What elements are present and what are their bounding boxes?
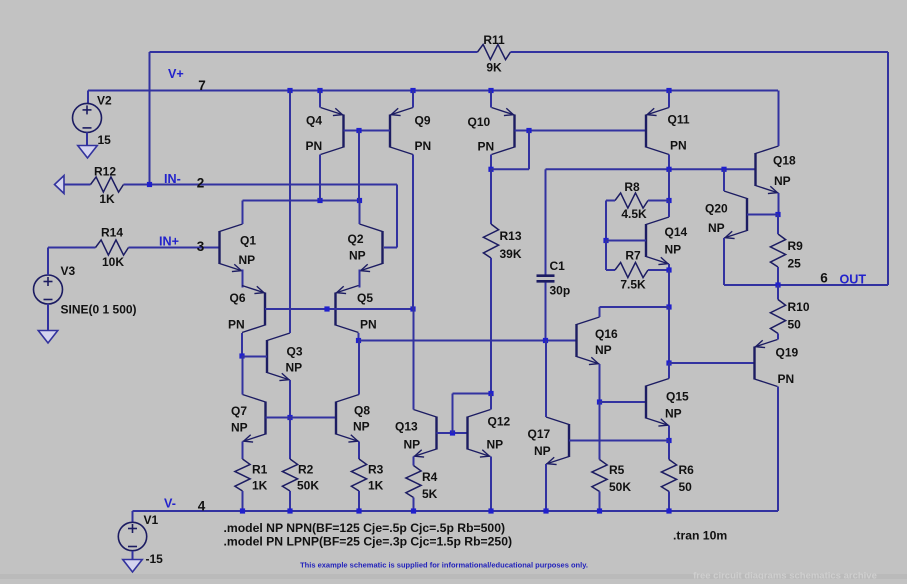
label V2: [97, 94, 112, 108]
net OUT line: [778, 284, 888, 286]
junction Q20 collector tap: [721, 167, 726, 172]
ground below V2: [78, 146, 98, 159]
wire Q10/Q11 base rail: [515, 130, 647, 132]
wire Q6 collector down: [241, 333, 243, 356]
voltage source V3: [34, 275, 63, 304]
label Q17: [528, 427, 551, 441]
wire Q19 collector to V-: [777, 387, 779, 512]
wire Q4 collector down: [319, 155, 321, 201]
wire Q7/Q8 base rail: [266, 417, 337, 419]
svg-text:R3: R3: [368, 463, 384, 477]
wire R8 left lead: [606, 201, 615, 241]
label Q10: [468, 115, 491, 129]
svg-text:Q11: Q11: [668, 113, 690, 127]
label Q14: [665, 225, 688, 239]
svg-text:10K: 10K: [102, 255, 124, 269]
wire Q17 collector up: [545, 341, 547, 418]
wire Q7 collector up: [242, 356, 244, 395]
junction V+ Q3: [287, 88, 292, 93]
junction Q4/Q9 base tap: [356, 128, 361, 133]
label node 4: [198, 499, 206, 514]
resistor R13: [483, 224, 498, 258]
junction V- R1: [240, 508, 245, 513]
label R13 39K: [500, 247, 522, 261]
wire Q17 base line: [569, 440, 669, 442]
svg-text:R10: R10: [788, 300, 810, 314]
transistor Q13: [414, 410, 437, 458]
svg-text:R7: R7: [625, 249, 641, 263]
svg-text:NP: NP: [353, 420, 370, 434]
svg-text:Q14: Q14: [665, 225, 688, 239]
label SINE(0 1 500): [61, 303, 137, 317]
junction V- R2: [287, 508, 292, 513]
resistor R8: [615, 193, 648, 208]
resistor R6: [661, 460, 676, 492]
svg-text:Q2: Q2: [348, 232, 364, 246]
wire R11 to OUT corner: [511, 52, 889, 285]
wire base rail down to collector line: [358, 131, 360, 201]
junction Q5 collector node: [356, 338, 361, 343]
label R11: [483, 33, 505, 47]
svg-text:C1: C1: [550, 259, 566, 273]
resistor R10: [770, 300, 785, 334]
label R13: [500, 229, 522, 243]
svg-text:Q10: Q10: [468, 115, 491, 129]
svg-text:R4: R4: [422, 470, 438, 484]
label 30p: [550, 284, 571, 298]
svg-text:NP: NP: [534, 444, 551, 458]
junction R13 / Q12 collector: [488, 391, 493, 396]
junction V- R4: [411, 508, 416, 513]
wire V2 to rail: [87, 91, 89, 104]
transistor Q18: [756, 146, 779, 194]
svg-text:V1: V1: [144, 513, 159, 527]
svg-text:Q9: Q9: [415, 114, 431, 128]
label Q5 PN: [360, 318, 377, 332]
wire V3 to R14: [48, 248, 96, 276]
wire Q4/Q9 base rail: [344, 130, 391, 132]
transistor Q20: [724, 191, 747, 239]
wire feedback from IN- up to R11: [150, 52, 478, 185]
svg-text:NP: NP: [349, 249, 366, 263]
svg-text:R14: R14: [101, 226, 123, 240]
resistor R2: [282, 459, 297, 491]
label Q20: [705, 202, 728, 216]
label IN-: [164, 172, 181, 186]
junction V+ Q4: [317, 88, 322, 93]
label Q8 NP: [353, 420, 370, 434]
label Q19: [776, 346, 799, 360]
wire Q17 emitter to V-: [545, 464, 547, 511]
ground below V3: [38, 331, 58, 344]
label Q5: [357, 291, 373, 305]
wire Q18 collector to V+: [778, 91, 780, 147]
wire R10 to Q19 emitter: [777, 334, 779, 340]
transistor Q9 PNP: [390, 108, 413, 155]
svg-text:V3: V3: [61, 264, 76, 278]
resistor R11: [478, 44, 511, 59]
svg-text:NP: NP: [404, 438, 421, 452]
wire C1 top lead: [545, 169, 547, 275]
transistor Q8: [336, 395, 359, 443]
notice text: [300, 561, 588, 570]
wire Q12 emitter to V-: [490, 457, 492, 512]
junction V+ Q11: [666, 88, 671, 93]
label R6 50: [679, 480, 693, 494]
label -15: [146, 552, 164, 566]
label Q13 NP: [404, 438, 421, 452]
label IN+: [159, 235, 179, 249]
label Q11: [668, 113, 690, 127]
wire Q13/Q12 base link: [437, 432, 468, 434]
label node 6: [820, 271, 828, 286]
transistor Q14: [646, 217, 669, 265]
label Q4: [306, 114, 322, 128]
wire Q1 collector: [243, 201, 360, 225]
ground below V1: [123, 560, 143, 573]
svg-text:4.5K: 4.5K: [621, 207, 647, 221]
svg-text:R6: R6: [679, 463, 695, 477]
label node 3: [197, 239, 205, 254]
junction Q19 base node: [666, 360, 671, 365]
svg-text:NP: NP: [665, 243, 682, 257]
wire Q15 emitter lead: [668, 426, 670, 441]
label Q15: [666, 390, 689, 404]
svg-text:Q6: Q6: [230, 291, 246, 305]
label Q3: [287, 345, 303, 359]
wire Q8 collector up: [358, 341, 360, 395]
wire Q10 base to collector: [491, 131, 529, 170]
label R2: [298, 463, 314, 477]
wire R8 right lead: [648, 200, 669, 202]
transistor Q11 PNP: [646, 108, 669, 155]
label Q15 NP: [665, 407, 682, 421]
junction C1 / Q17 collector: [543, 338, 548, 343]
svg-text:50: 50: [679, 480, 693, 494]
wire Q7 emitter to R1: [242, 442, 244, 460]
svg-text:NP: NP: [665, 407, 682, 421]
svg-text:2: 2: [197, 176, 205, 191]
label Q9 PN: [415, 139, 432, 153]
wire R7 left lead: [606, 241, 615, 271]
wire Q9 emitter: [412, 91, 414, 108]
wire Q19 base line: [669, 362, 754, 364]
wire Q14 base line: [606, 240, 646, 242]
svg-text:50: 50: [788, 318, 802, 332]
wire R13 top: [490, 169, 492, 224]
svg-text:IN+: IN+: [159, 235, 179, 249]
wire Q16 emitter to R5: [599, 402, 601, 460]
resistor R1: [235, 459, 250, 491]
wire Q20 base line: [747, 214, 778, 216]
label Q17 NP: [534, 444, 551, 458]
bottom strip: [0, 574, 907, 579]
wire Q12 collector lead: [490, 394, 492, 410]
wire base up and to R13: [453, 394, 492, 434]
net V+ rail node 7: [88, 90, 778, 92]
capacitor C1: [537, 276, 555, 282]
svg-text:3: 3: [197, 239, 205, 254]
wire Q10 collector down: [490, 155, 492, 170]
wire C1 to Q18 base: [546, 168, 756, 170]
wire R3 to V-: [358, 491, 360, 511]
wire Q3 emitter down: [289, 380, 291, 418]
label Q6 PN: [228, 318, 245, 332]
watermark: [693, 571, 877, 582]
wire Q8 emitter to R3: [358, 442, 360, 460]
svg-text:OUT: OUT: [840, 273, 867, 287]
wire Q5/Q6 base rail: [265, 308, 413, 310]
junction V+ Q9: [410, 88, 415, 93]
transistor Q12: [468, 410, 491, 458]
svg-text:25: 25: [788, 257, 802, 271]
label R10 50: [788, 318, 802, 332]
wire R14 to Q1 base: [129, 247, 220, 249]
wire Q9 collector down: [412, 155, 414, 310]
label 7.5K: [620, 278, 646, 292]
junction V- Q17: [543, 508, 548, 513]
label Q4 PN: [306, 139, 323, 153]
junction OUT: [775, 282, 780, 287]
label R10: [788, 300, 810, 314]
wire Q11 emitter: [668, 91, 670, 108]
junction mirror base / Q9 collector: [410, 306, 415, 311]
label Q19 PN: [778, 372, 795, 386]
svg-text:R12: R12: [94, 165, 116, 179]
label R9 25: [788, 257, 802, 271]
svg-text:.model PN LPNP(BF=25 Cje=.3p C: .model PN LPNP(BF=25 Cje=.3p Cjc=1.5p Rb…: [224, 535, 513, 549]
ground at IN- input: [55, 176, 65, 194]
label node 7: [198, 78, 206, 93]
label Q2: [348, 232, 364, 246]
svg-text:50K: 50K: [609, 480, 631, 494]
label Q14 NP: [665, 243, 682, 257]
svg-text:SINE(0 1 500): SINE(0 1 500): [61, 303, 137, 317]
wire Q15 emitter to R6: [668, 441, 670, 460]
label Q18: [773, 154, 796, 168]
label R3 1K: [368, 479, 384, 493]
svg-text:NP: NP: [774, 174, 791, 188]
svg-text:Q17: Q17: [528, 427, 551, 441]
svg-text:Q16: Q16: [595, 327, 618, 341]
wire R1 to V-: [242, 491, 244, 511]
svg-text:NP: NP: [708, 221, 725, 235]
svg-text:1K: 1K: [99, 192, 115, 206]
svg-text:PN: PN: [415, 139, 432, 153]
svg-text:39K: 39K: [500, 247, 522, 261]
wire Q14 collector lead: [668, 201, 670, 218]
svg-text:1K: 1K: [252, 479, 268, 493]
svg-text:Q8: Q8: [354, 404, 370, 418]
label V1: [144, 513, 159, 527]
label Q3 NP: [286, 361, 303, 375]
svg-text:Q5: Q5: [357, 291, 373, 305]
wire Q20 emitter to OUT: [724, 238, 778, 285]
label Q11 PN: [670, 139, 687, 153]
svg-text:NP: NP: [487, 438, 504, 452]
svg-text:R1: R1: [252, 463, 268, 477]
wire gnd to R12: [64, 184, 91, 186]
label 10K: [102, 255, 124, 269]
wire Q3 collector to V+: [289, 91, 291, 334]
label R1: [252, 463, 268, 477]
svg-text:R13: R13: [500, 229, 522, 243]
label Q13: [395, 420, 418, 434]
svg-text:NP: NP: [595, 343, 612, 357]
label 4.5K: [621, 207, 647, 221]
junction R8/Q14 collector: [666, 198, 671, 203]
label Q18 NP: [774, 174, 791, 188]
wire R12 to Q2 base corner: [124, 185, 398, 248]
wire R5 to V-: [599, 492, 601, 512]
label OUT: [840, 273, 867, 287]
svg-text:NP: NP: [239, 253, 256, 267]
junction V- R3: [356, 508, 361, 513]
resistor R4: [406, 466, 421, 498]
junction V- R6: [666, 508, 671, 513]
resistor R9: [770, 234, 785, 267]
transistor Q5 PNP: [336, 286, 359, 333]
svg-text:30p: 30p: [550, 284, 571, 298]
junction Q16 collector node: [666, 304, 671, 309]
transistor Q4 PNP: [321, 108, 344, 155]
wire V2 to ground: [86, 132, 88, 145]
label V3: [61, 264, 76, 278]
transistor Q19 PNP: [755, 340, 778, 387]
label R5 50K: [609, 480, 631, 494]
wire R13 down to Q12: [490, 258, 492, 394]
wire Q4 emitter: [319, 91, 321, 108]
wire down to Q19 base node: [668, 307, 670, 363]
svg-text:free circuit diagrams schemati: free circuit diagrams schematics archive: [693, 571, 877, 580]
label 15: [98, 133, 112, 147]
svg-text:15: 15: [98, 133, 112, 147]
svg-text:7: 7: [198, 78, 206, 93]
label R5: [609, 463, 625, 477]
svg-text:R8: R8: [624, 180, 640, 194]
wire Q14 emitter to Q16 node: [668, 270, 670, 307]
svg-text:This example schematic is supp: This example schematic is supplied for i…: [300, 561, 588, 570]
svg-text:V-: V-: [164, 497, 176, 511]
junction Q10 collector: [488, 167, 493, 172]
wire Q14 emitter lead: [668, 264, 670, 270]
directive .model NP: [224, 521, 506, 535]
label C1: [550, 259, 566, 273]
wire V1 to rail: [132, 511, 134, 522]
wire second stage input line: [359, 340, 577, 342]
svg-text:Q15: Q15: [666, 390, 689, 404]
transistor Q2: [360, 224, 383, 272]
transistor Q15: [646, 379, 669, 427]
svg-text:1K: 1K: [368, 479, 384, 493]
label Q7 NP: [231, 421, 248, 435]
svg-text:Q1: Q1: [240, 234, 256, 248]
label R12: [94, 165, 116, 179]
resistor R5: [592, 460, 607, 492]
label Q8: [354, 404, 370, 418]
label Q6: [230, 291, 246, 305]
svg-text:PN: PN: [360, 318, 377, 332]
svg-text:R2: R2: [298, 463, 314, 477]
wire Q3 emitter to R2: [289, 418, 291, 460]
wire Q3 base: [242, 356, 267, 358]
wire Q13 collector up: [413, 309, 415, 410]
label R4 5K: [422, 487, 438, 501]
resistor R12: [91, 177, 124, 192]
svg-text:V+: V+: [168, 67, 184, 81]
svg-text:PN: PN: [228, 318, 245, 332]
label R7: [625, 249, 641, 263]
label Q7: [231, 404, 247, 418]
svg-text:9K: 9K: [486, 61, 502, 75]
junction V- Q12: [488, 508, 493, 513]
svg-text:Q3: Q3: [287, 345, 303, 359]
label 9K: [486, 61, 502, 75]
wire Q2 collector: [359, 201, 361, 225]
svg-text:4: 4: [198, 499, 206, 514]
junction Q12/Q13 bases: [450, 430, 455, 435]
wire Q13 emitter to R4: [413, 457, 415, 466]
wire Q15 base line: [600, 401, 647, 403]
svg-text:Q7: Q7: [231, 404, 247, 418]
junction IN- feedback: [147, 182, 152, 187]
wire R9 top lead: [777, 215, 779, 235]
label V-: [164, 497, 176, 511]
wire OUT to R10: [777, 285, 779, 300]
resistor R7: [615, 262, 648, 277]
wire R7 right lead: [648, 269, 669, 271]
svg-text:50K: 50K: [297, 479, 319, 493]
wire R2 to V-: [289, 491, 291, 511]
svg-text:IN-: IN-: [164, 172, 181, 186]
svg-text:.tran 10m: .tran 10m: [673, 529, 727, 543]
label R1 1K: [252, 479, 268, 493]
transistor Q17: [546, 417, 569, 465]
svg-text:Q13: Q13: [395, 420, 418, 434]
label Q16: [595, 327, 618, 341]
transistor Q10 PNP: [492, 108, 515, 155]
label Q16 NP: [595, 343, 612, 357]
junction Q6 collector / Q3 base: [239, 353, 244, 358]
wire R4 to V-: [413, 498, 415, 512]
wire Q15 collector lead: [668, 363, 670, 379]
wire R9 bottom lead: [777, 267, 779, 285]
label R14: [101, 226, 123, 240]
label R3: [368, 463, 384, 477]
label Q1: [240, 234, 256, 248]
wire Q5 collector down: [358, 333, 360, 341]
label V+: [168, 67, 184, 81]
svg-text:R9: R9: [788, 239, 804, 253]
wire Q18 emitter lead: [778, 193, 780, 215]
wire V3 to ground: [47, 304, 49, 331]
svg-text:NP: NP: [231, 421, 248, 435]
svg-text:Q19: Q19: [776, 346, 799, 360]
transistor Q1: [220, 224, 243, 272]
label R6: [679, 463, 695, 477]
label Q12 NP: [487, 438, 504, 452]
label R2 50K: [297, 479, 319, 493]
wire R6 to V-: [668, 492, 670, 512]
svg-text:5K: 5K: [422, 487, 438, 501]
svg-text:.model NP NPN(BF=125 Cje=.5p C: .model NP NPN(BF=125 Cje=.5p Cjc=.5p Rb=…: [224, 521, 506, 535]
label R9: [788, 239, 804, 253]
svg-text:R11: R11: [483, 33, 505, 47]
junction Q14 emitter node: [666, 267, 671, 272]
resistor R14: [96, 240, 129, 255]
label Q20 NP: [708, 221, 725, 235]
wire Q16 emitter down: [599, 364, 601, 402]
